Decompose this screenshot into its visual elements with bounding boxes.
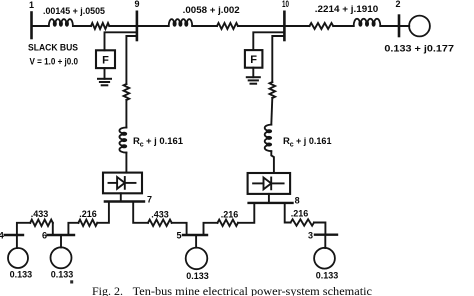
svg-text:4: 4 [0, 231, 4, 241]
inductor line 1-9 [49, 19, 73, 26]
svg-text:Fig. 2.: Fig. 2. [92, 284, 123, 296]
wire bus7 right drop [133, 202, 148, 223]
resistor left chain (vertical) [124, 84, 130, 100]
diode symbol in box 7 [109, 182, 118, 184]
wire rectifier 8 to bus 8 [268, 194, 270, 203]
svg-text:.433: .433 [31, 209, 49, 219]
bus 3 bar [315, 233, 337, 235]
svg-text:1: 1 [29, 0, 34, 10]
wire bus8 right drop [285, 203, 291, 223]
ground below F box (bus 9) [98, 78, 111, 80]
bus 7 bar [105, 200, 144, 202]
wire to node 3 [314, 223, 325, 235]
bus 10 bar [283, 12, 286, 40]
wire resistor to coil right chain [271, 98, 272, 125]
resistor line 9-10 [217, 23, 238, 29]
resistor .433 (6-4) [30, 220, 53, 226]
svg-text:.2214 + j.1910: .2214 + j.1910 [315, 4, 378, 15]
svg-text:.216: .216 [221, 210, 239, 220]
rectifier box 7 [103, 173, 142, 194]
svg-text:0.133 + j0.177: 0.133 + j0.177 [384, 44, 454, 55]
wire resistor to coil left chain [125, 100, 127, 128]
load circle node 6 [51, 247, 72, 268]
bus 8 bar [249, 202, 293, 204]
resistor .433 (7-5) [148, 220, 172, 226]
wire F-stub at bus 10 [253, 32, 284, 50]
F box (filter) at bus 9 [96, 50, 115, 68]
load circle node 4 [8, 248, 28, 268]
resistor .216 (8-3) [291, 219, 314, 225]
svg-text:.216: .216 [291, 209, 309, 219]
wire node5 to load [195, 235, 197, 248]
svg-text:9: 9 [134, 0, 139, 9]
wire R to bus 9 [109, 25, 137, 27]
load circle node 3 [314, 248, 335, 269]
wire R to L line 10-2 [333, 25, 354, 27]
wire bus1 to L1 [32, 25, 49, 27]
stray scan speck [70, 280, 73, 283]
svg-text:0.133: 0.133 [186, 271, 209, 281]
bus 4 bar [5, 234, 23, 236]
ground below F box (bus 10) [247, 76, 260, 78]
svg-text:2: 2 [395, 0, 400, 9]
wire bus10 to R3 [284, 25, 309, 27]
wire bus7 left drop [97, 202, 109, 223]
F box (filter) at bus 10 [245, 50, 263, 68]
inductor line 10-2 [354, 19, 381, 26]
svg-text:F: F [250, 54, 257, 66]
svg-text:Ten-bus mine electrical power-: Ten-bus mine electrical power-system sch… [133, 284, 372, 296]
svg-text:+ j 0.161: + j 0.161 [296, 136, 332, 147]
diode symbol in box 8 [253, 182, 263, 184]
bus 1 bar [30, 13, 33, 39]
svg-text:10: 10 [282, 0, 289, 9]
svg-text:c: c [290, 142, 294, 149]
svg-text:V = 1.0 + j0.0: V = 1.0 + j0.0 [30, 57, 79, 68]
wire node4 to load [16, 235, 18, 248]
wire node3 to load [324, 235, 326, 248]
resistor line 10-2 [310, 23, 334, 29]
wire node5 riser right [204, 223, 218, 235]
wire node6 left drop [52, 223, 54, 235]
resistor .216 (7-6) [78, 220, 97, 226]
resistor line 1-9 [91, 23, 109, 29]
wire L to R line 9-10 [192, 25, 217, 27]
wire to node 5 [172, 223, 187, 235]
wire rectifier 7 to bus 7 [120, 193, 122, 201]
inductor left chain (vertical) [119, 127, 126, 152]
svg-text:0.133: 0.133 [51, 270, 74, 280]
wire node6 to load [60, 235, 62, 247]
svg-text:.0058 + j.002: .0058 + j.002 [183, 5, 240, 16]
resistor right chain (vertical) [270, 82, 276, 98]
svg-text:7: 7 [147, 195, 152, 205]
wire F-stub at bus 9 [105, 32, 137, 50]
svg-text:+ j 0.161: + j 0.161 [146, 136, 184, 147]
svg-text:5: 5 [176, 230, 181, 240]
wire L to R line 1-9 [73, 25, 91, 27]
bus 6 bar [48, 234, 75, 236]
rectifier box 8 [248, 173, 291, 194]
svg-text:6: 6 [42, 231, 47, 241]
bus 2 bar [398, 16, 401, 36]
wire R to bus 10 [238, 25, 285, 27]
svg-text:c: c [140, 142, 144, 149]
svg-text:.216: .216 [79, 209, 97, 219]
inductor right chain (vertical) [265, 125, 272, 152]
bus 5 bar [183, 234, 207, 236]
inductor line 9-10 [169, 19, 193, 26]
generator circle node 2 [409, 16, 430, 37]
svg-text:8: 8 [295, 196, 300, 206]
wire coil to rectifier 8 (jog) [271, 151, 274, 173]
svg-text:3: 3 [308, 230, 313, 240]
load circle node 5 [186, 248, 208, 270]
wire coil to rectifier 7 [125, 153, 127, 173]
wire stub bus9 to left chain [126, 36, 136, 84]
wire F box to ground [104, 68, 106, 79]
bus 9 bar [136, 12, 139, 40]
svg-text:.433: .433 [151, 210, 169, 220]
svg-text:SLACK BUS: SLACK BUS [28, 43, 78, 54]
resistor .216 (5-8) [218, 220, 239, 226]
wire to bus8 left drop [238, 203, 254, 223]
svg-text:0.133: 0.133 [10, 270, 33, 280]
wire L3 to generator 2 [380, 25, 409, 27]
svg-text:0.133: 0.133 [316, 271, 339, 281]
svg-text:F: F [102, 55, 109, 67]
wire stub bus10 to right chain [272, 36, 284, 82]
wire F box to ground (bus 10) [252, 68, 254, 78]
wire to node6 right riser [68, 223, 78, 235]
wire to node 4 riser [17, 223, 30, 235]
wire bus9 to L2 [137, 25, 169, 27]
svg-text:.00145 + j.0505: .00145 + j.0505 [43, 6, 106, 17]
